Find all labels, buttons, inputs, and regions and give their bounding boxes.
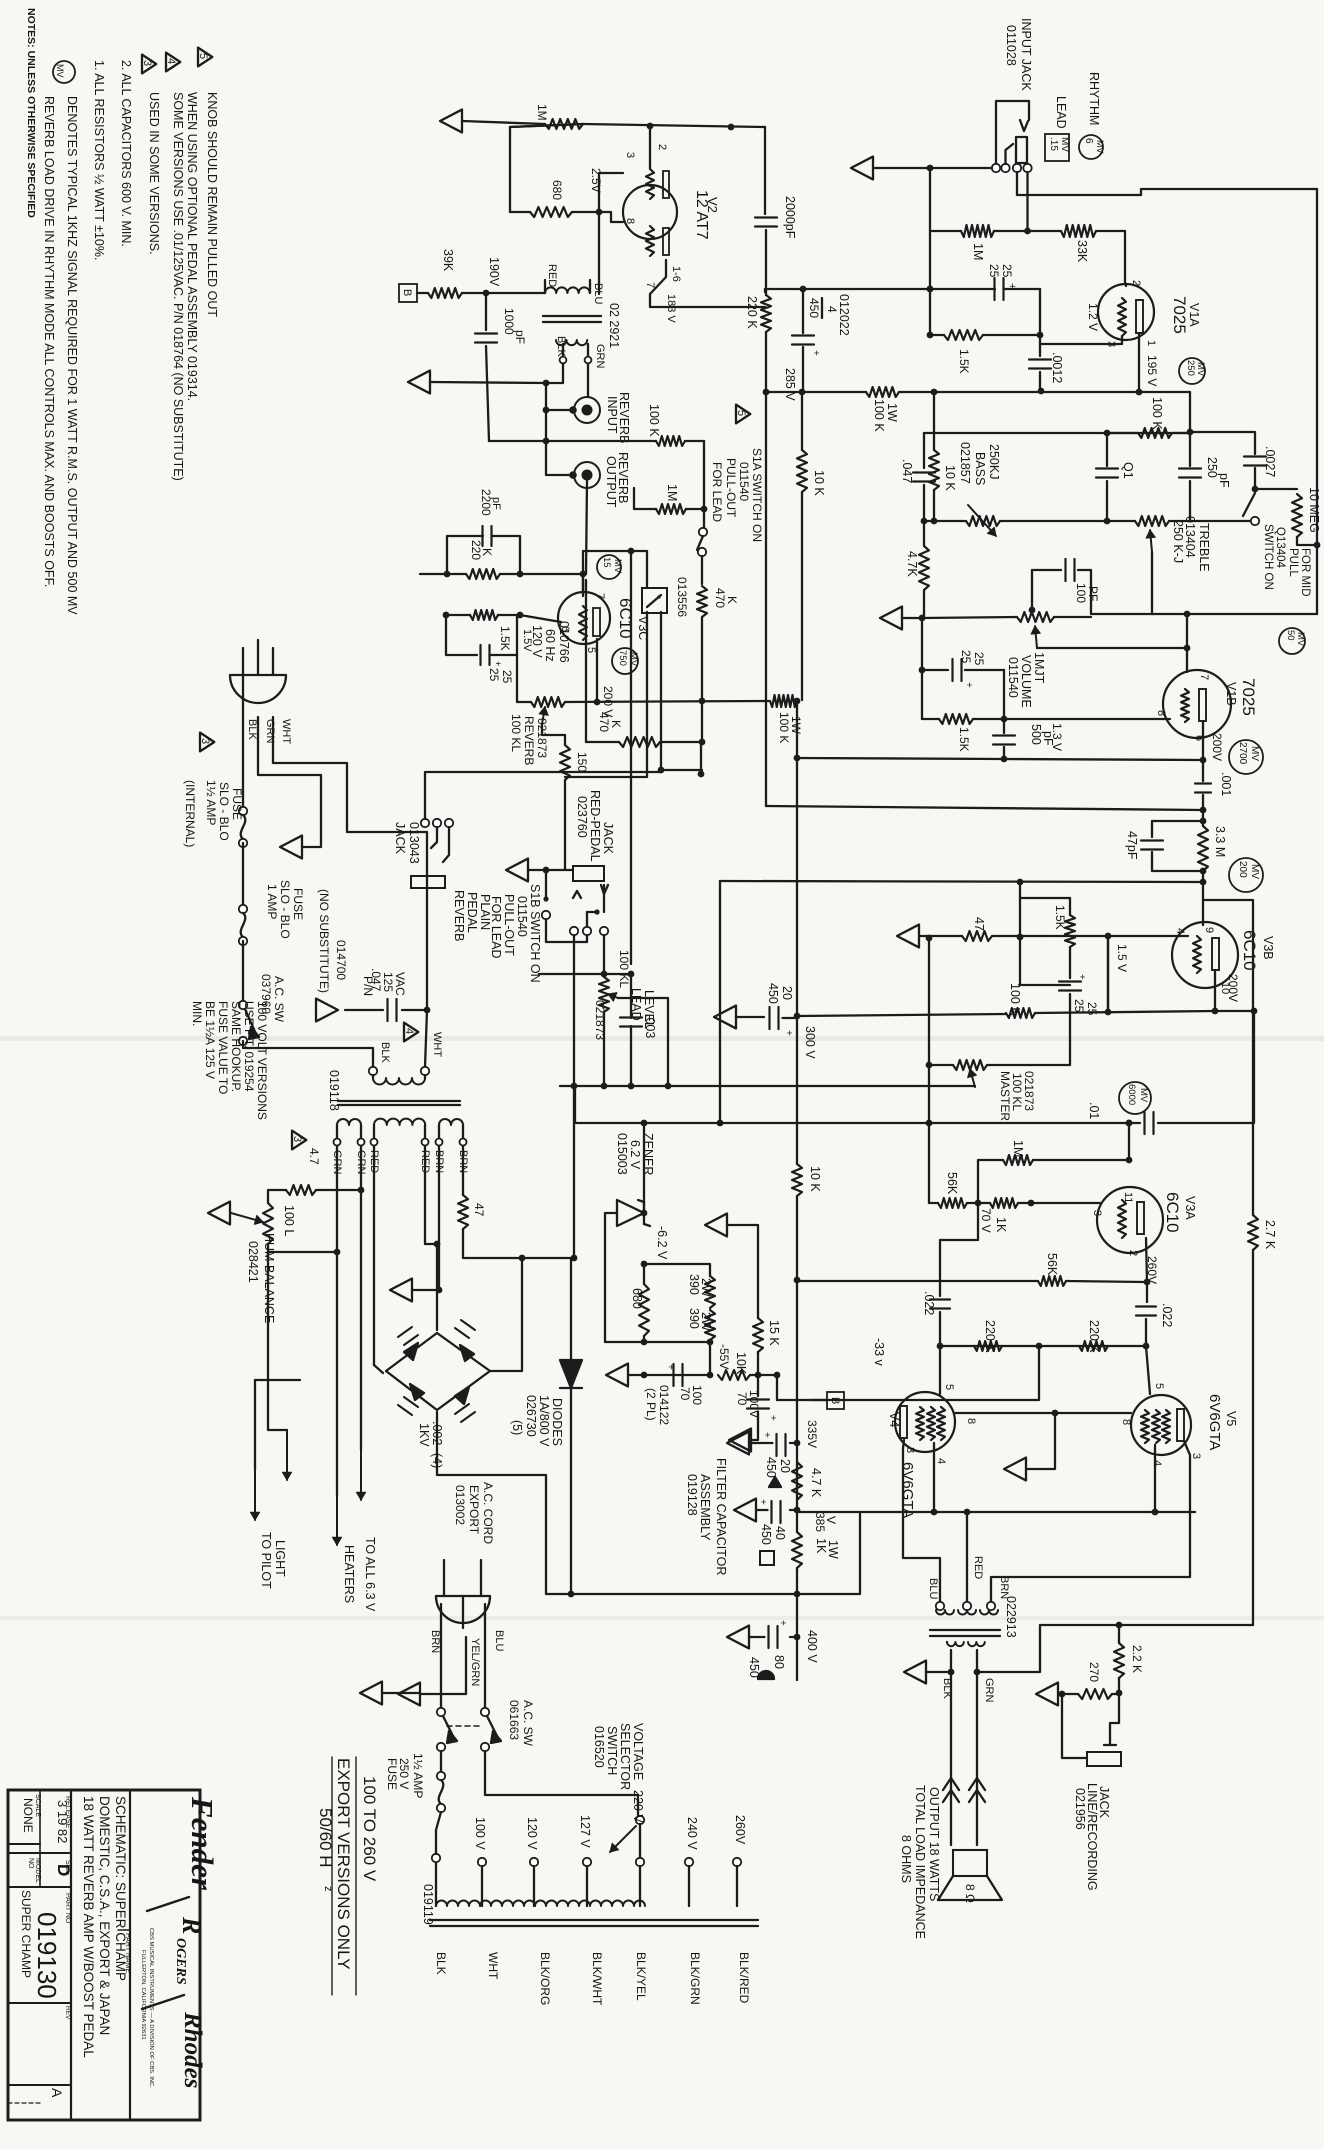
ecap 20/450 node a xyxy=(768,1007,770,1029)
ground 70/100V xyxy=(729,1429,751,1452)
svg-text:014122: 014122 xyxy=(657,1385,671,1425)
svg-text:100 K: 100 K xyxy=(1008,983,1022,1016)
wire BRN1 grounded xyxy=(438,1146,440,1290)
svg-text:V4: V4 xyxy=(887,1412,901,1427)
svg-text:4.7 K: 4.7 K xyxy=(809,1468,823,1498)
resistor 2.7K feedback xyxy=(1252,1250,1254,1625)
ground at input xyxy=(851,157,873,180)
resistor 33K xyxy=(1028,230,1062,232)
wire reverb pot left xyxy=(517,655,531,702)
mv box .15MV xyxy=(1045,134,1069,161)
svg-text:GRN: GRN xyxy=(264,719,276,744)
svg-text:TREBLE: TREBLE xyxy=(1197,523,1211,572)
svg-text:200V: 200V xyxy=(1226,974,1240,1002)
svg-text:CBS MUSICAL INSTRUMENTS — A DI: CBS MUSICAL INSTRUMENTS — A DIVISION OF … xyxy=(148,1928,154,2088)
svg-text:50/60 H: 50/60 H xyxy=(316,1808,335,1868)
svg-text:2. ALL CAPACITORS 600 V. MIN.: 2. ALL CAPACITORS 600 V. MIN. xyxy=(119,60,133,247)
svg-text:+: + xyxy=(777,1620,788,1626)
resistor 150 xyxy=(560,745,570,780)
wire 1.5K top to bus xyxy=(1020,898,1070,937)
wire V1B plate xyxy=(1202,721,1204,760)
svg-text:PF: PF xyxy=(1086,586,1100,601)
svg-text:1.5K: 1.5K xyxy=(957,727,971,752)
ecap 25/25 V3B xyxy=(1069,958,1071,978)
wire 470K junction down xyxy=(700,742,702,774)
svg-text:9: 9 xyxy=(1203,927,1215,933)
selector wiper xyxy=(636,1816,644,1824)
svg-text:1M: 1M xyxy=(1011,1140,1025,1157)
svg-text:1M: 1M xyxy=(665,484,679,501)
svg-text:5: 5 xyxy=(943,1384,955,1390)
svg-text:47pF: 47pF xyxy=(1125,831,1139,860)
resistor 47 bias winding xyxy=(462,1146,464,1195)
svg-text:2W: 2W xyxy=(699,1278,713,1297)
resistor 4.7 heater xyxy=(358,1187,365,1194)
note 5 triangle xyxy=(198,48,212,67)
note MV symbol xyxy=(53,61,75,83)
svg-text:MV: MV xyxy=(1249,746,1260,761)
svg-text:500: 500 xyxy=(1029,724,1043,745)
svg-text:220 K: 220 K xyxy=(983,1320,997,1353)
svg-text:.002: .002 xyxy=(430,1421,444,1445)
svg-text:1K: 1K xyxy=(814,1538,828,1554)
svg-text:250KJ: 250KJ xyxy=(987,444,1001,479)
svg-text:750: 750 xyxy=(617,650,628,666)
B box node xyxy=(399,284,417,302)
wire BRN2 to bias diode xyxy=(463,1229,571,1258)
svg-text:FOR LEAD: FOR LEAD xyxy=(489,896,503,959)
svg-text:JACK: JACK xyxy=(601,822,615,855)
wire bias to 220K mid xyxy=(777,1346,1039,1400)
wire 1000pF down to 100K row xyxy=(486,346,489,441)
svg-text:2000pF: 2000pF xyxy=(783,196,797,239)
svg-text:FOR MID: FOR MID xyxy=(1299,548,1311,597)
svg-text:56K: 56K xyxy=(1045,1253,1059,1276)
svg-text:20: 20 xyxy=(780,986,794,1000)
svg-text:LEAD: LEAD xyxy=(1054,96,1068,129)
svg-text:285 V: 285 V xyxy=(783,368,797,401)
svg-text:2.7 K: 2.7 K xyxy=(1263,1220,1277,1250)
svg-text:20: 20 xyxy=(778,1459,792,1473)
svg-text:100 KL: 100 KL xyxy=(509,714,523,752)
svg-text:GRN: GRN xyxy=(983,1678,995,1703)
svg-text:V3A: V3A xyxy=(1183,1196,1197,1220)
svg-text:(2 PL): (2 PL) xyxy=(644,1388,658,1421)
svg-text:183 V: 183 V xyxy=(665,294,677,323)
resistor 1.5K V1A cathode xyxy=(930,334,944,336)
capacitor 100pF volume bright xyxy=(1032,570,1061,610)
svg-text:1KV: 1KV xyxy=(417,1423,431,1447)
svg-text:1 AMP: 1 AMP xyxy=(265,884,279,919)
svg-text:RED: RED xyxy=(972,1556,984,1579)
svg-text:25: 25 xyxy=(500,670,514,684)
ecap 70/100V xyxy=(757,1375,759,1396)
svg-text:5: 5 xyxy=(197,53,209,59)
ground .047 xyxy=(316,999,338,1022)
wire AC cord export xyxy=(420,1637,466,1694)
svg-text:15 K: 15 K xyxy=(767,1320,781,1346)
svg-text:FUSE VALUE TO: FUSE VALUE TO xyxy=(216,1001,230,1094)
svg-text:pF: pF xyxy=(490,497,502,510)
svg-text:300 V: 300 V xyxy=(803,1026,817,1059)
svg-text:BLK/WHT: BLK/WHT xyxy=(590,1952,604,2006)
750MV badge xyxy=(612,648,638,674)
wire V1A cathode xyxy=(1040,336,1122,344)
capacitor .022 V3A in xyxy=(940,1203,978,1296)
capacitor 47pF bypass xyxy=(1152,821,1203,837)
svg-text:1: 1 xyxy=(1145,340,1157,346)
svg-text:SWITCH ON: SWITCH ON xyxy=(1262,524,1274,590)
svg-text:3: 3 xyxy=(291,1136,303,1142)
svg-text:NO: NO xyxy=(27,1858,34,1869)
svg-text:PULL: PULL xyxy=(1287,548,1299,577)
wire 10MEG bottom xyxy=(1297,537,1317,545)
svg-text:FUSE: FUSE xyxy=(230,788,244,820)
svg-text:DIODES: DIODES xyxy=(550,1398,564,1446)
svg-text:TOTAL LOAD IMPEDANCE: TOTAL LOAD IMPEDANCE xyxy=(913,1785,927,1939)
022913 secondary xyxy=(947,1642,964,1646)
svg-text:18 WATT REVERB AMP W/BOOST PED: 18 WATT REVERB AMP W/BOOST PEDAL xyxy=(81,1796,96,2058)
ground reverb xyxy=(408,371,430,394)
svg-text:P/N: P/N xyxy=(361,976,375,996)
svg-text:1.3 V: 1.3 V xyxy=(1050,723,1064,751)
svg-text:680: 680 xyxy=(550,180,564,200)
wire 33K to V1A grid xyxy=(1125,231,1126,286)
wire line jack xyxy=(1062,1694,1087,1758)
svg-text:RHYTHM: RHYTHM xyxy=(1087,72,1101,125)
wire 400V to OT xyxy=(797,1514,860,1594)
svg-text:2: 2 xyxy=(656,144,668,150)
svg-text:10 K: 10 K xyxy=(812,470,826,496)
B box bias xyxy=(827,1392,844,1409)
svg-text:100 K: 100 K xyxy=(872,399,886,432)
wire OT RED to bus xyxy=(966,1512,968,1602)
svg-text:190V: 190V xyxy=(487,257,501,287)
svg-text:BLK: BLK xyxy=(555,336,567,357)
svg-text:8 Ω: 8 Ω xyxy=(963,1884,977,1903)
svg-text:-55V: -55V xyxy=(717,1344,731,1369)
svg-text:023760: 023760 xyxy=(575,796,589,838)
svg-text:z: z xyxy=(322,1886,334,1892)
wire V5 plate to OT BRN xyxy=(991,1441,1190,1602)
V3C plate wire xyxy=(596,639,598,702)
svg-text:240 V: 240 V xyxy=(685,1817,699,1850)
svg-text:.047: .047 xyxy=(900,459,914,483)
svg-text:3: 3 xyxy=(1091,1210,1103,1216)
svg-text:061663: 061663 xyxy=(507,1700,521,1740)
svg-text:4: 4 xyxy=(165,58,177,64)
wire V3B plate xyxy=(1214,970,1216,1011)
svg-text:100 KL: 100 KL xyxy=(617,950,631,988)
svg-text:Q13404: Q13404 xyxy=(1274,527,1286,569)
resistor 100K V3B plate load xyxy=(797,1014,1006,1016)
svg-text:25: 25 xyxy=(1072,999,1086,1013)
svg-text:125: 125 xyxy=(381,972,395,992)
svg-text:127 V: 127 V xyxy=(578,1815,592,1848)
svg-text:013002: 013002 xyxy=(453,1485,467,1525)
svg-text:SELECTOR: SELECTOR xyxy=(618,1723,632,1790)
svg-text:3: 3 xyxy=(624,152,636,158)
mid switch Q13404 xyxy=(1251,517,1259,525)
svg-text:PART NO: PART NO xyxy=(64,1893,71,1924)
svg-text:50: 50 xyxy=(1285,630,1296,641)
svg-text:100 K: 100 K xyxy=(1150,397,1164,430)
svg-text:GRN: GRN xyxy=(594,344,606,369)
resistor 220K right xyxy=(1079,1341,1108,1351)
svg-text:80: 80 xyxy=(772,1655,786,1669)
svg-text:100 KL: 100 KL xyxy=(1010,1073,1024,1111)
svg-text:028421: 028421 xyxy=(246,1241,260,1283)
svg-text:100: 100 xyxy=(1074,583,1088,603)
svg-text:VOLUME: VOLUME xyxy=(1019,655,1033,708)
resistor 1M reverb xyxy=(656,504,686,514)
wire master feed xyxy=(1158,1011,1254,1123)
300V rail down xyxy=(796,1278,798,1512)
jack line/recording 021956 xyxy=(1087,1752,1121,1766)
resistor 56K V3A grid xyxy=(978,1160,1003,1203)
svg-text:BLK/YEL: BLK/YEL xyxy=(634,1952,648,2001)
svg-text:8: 8 xyxy=(1120,1419,1132,1425)
2700MV badge xyxy=(1229,740,1263,774)
capacitor .0012 xyxy=(1039,335,1041,356)
svg-text:ASSEMBLY: ASSEMBLY xyxy=(698,1474,712,1541)
svg-text:A: A xyxy=(49,2088,65,2098)
wire reverb secondary to jacks xyxy=(562,344,564,356)
resistor 10K plate feed xyxy=(931,389,938,396)
svg-text:BRN: BRN xyxy=(429,1630,441,1653)
resistor 39K xyxy=(417,292,428,294)
svg-text:R: R xyxy=(177,1916,206,1934)
V3C cathode network xyxy=(520,615,561,622)
svg-text:4: 4 xyxy=(1151,1460,1163,1466)
svg-text:021956: 021956 xyxy=(1073,1788,1087,1830)
resistor 10K bias xyxy=(718,1370,750,1380)
resistor 470K vertical xyxy=(697,586,707,617)
svg-text:K: K xyxy=(609,720,623,728)
svg-text:3: 3 xyxy=(141,60,153,66)
019119 taps xyxy=(478,1858,486,1866)
wire V2 plate to 183V xyxy=(650,260,666,298)
svg-text:7025: 7025 xyxy=(1239,678,1258,716)
logo slashes xyxy=(147,1897,189,1911)
svg-text:7: 7 xyxy=(1198,674,1210,680)
svg-text:BLK: BLK xyxy=(379,1042,391,1063)
svg-text:25: 25 xyxy=(959,650,973,664)
title block outer box xyxy=(8,1790,200,2120)
svg-text:SAME HOOKUP.: SAME HOOKUP. xyxy=(229,1001,243,1092)
svg-text:021857: 021857 xyxy=(958,442,972,484)
resistors 390 2W xyxy=(644,1264,710,1276)
resistor 220K boost xyxy=(761,295,771,332)
svg-text:40: 40 xyxy=(773,1526,787,1540)
resistor 100K reverb return xyxy=(489,440,546,442)
svg-text:400 V: 400 V xyxy=(805,1630,819,1663)
svg-text:BE 1½A 125 V: BE 1½A 125 V xyxy=(203,1001,217,1079)
svg-text:195 V: 195 V xyxy=(1145,355,1159,386)
svg-text:BLK/GRN: BLK/GRN xyxy=(688,1952,702,2005)
svg-text:+: + xyxy=(810,350,821,356)
svg-text:100 L: 100 L xyxy=(282,1205,296,1236)
svg-text:220 V: 220 V xyxy=(631,1790,645,1823)
svg-text:470: 470 xyxy=(713,588,727,608)
capacitor .022 coupling right xyxy=(1146,1282,1148,1302)
wire jack contact to rhythm bus xyxy=(1017,172,1317,614)
ground 6V6 cathode xyxy=(1004,1458,1026,1481)
wire master right to ecap xyxy=(987,994,1070,1065)
svg-text:+: + xyxy=(493,661,503,666)
ecap 25/25 boost xyxy=(993,278,995,300)
svg-text:USE P.T. 019254: USE P.T. 019254 xyxy=(242,1001,256,1092)
svg-text:010766: 010766 xyxy=(557,621,571,663)
svg-text:DOMESTIC, C.S.A., EXPORT & JAP: DOMESTIC, C.S.A., EXPORT & JAPAN xyxy=(97,1796,112,2035)
svg-text:1.5K: 1.5K xyxy=(498,626,512,651)
resistor 4.7K bass xyxy=(923,521,925,546)
svg-text:MODEL: MODEL xyxy=(34,1858,41,1883)
svg-text:EXPORT: EXPORT xyxy=(467,1485,481,1535)
wire to bias diode xyxy=(573,1086,575,1258)
svg-text:5: 5 xyxy=(1153,1383,1165,1389)
svg-text:BASS: BASS xyxy=(973,452,987,485)
svg-text:1½ AMP: 1½ AMP xyxy=(411,1753,425,1798)
ecap 40/450 filter2 xyxy=(790,1509,797,1511)
note3 triangle at fuse xyxy=(200,733,214,752)
svg-text:SLO - BLO: SLO - BLO xyxy=(217,782,231,841)
svg-text:MV: MV xyxy=(1195,362,1206,377)
resistor 10MEG xyxy=(1255,488,1297,490)
svg-text:BLK: BLK xyxy=(246,719,258,740)
svg-text:NOTES: UNLESS OTHERWISE SPECIF: NOTES: UNLESS OTHERWISE SPECIFIED xyxy=(25,8,37,218)
resistor 1K 1W xyxy=(792,1532,802,1568)
svg-text:470: 470 xyxy=(597,712,611,732)
svg-text:1M: 1M xyxy=(971,243,985,260)
svg-text:47: 47 xyxy=(972,917,986,931)
svg-text:2.5V: 2.5V xyxy=(589,168,603,193)
svg-text:.003: .003 xyxy=(643,1014,657,1038)
wire GRN to chassis xyxy=(258,717,321,847)
svg-text:A.C. SW: A.C. SW xyxy=(521,1700,535,1747)
svg-text:6000: 6000 xyxy=(1126,1084,1137,1105)
ground 20/450 node a xyxy=(714,1006,736,1029)
wire V2 bottom loop xyxy=(650,298,765,307)
svg-text:WHT: WHT xyxy=(431,1032,443,1057)
svg-text:4.7K: 4.7K xyxy=(905,551,919,577)
tube V2 12AT7 xyxy=(623,185,677,239)
svg-text:PULL-OUT: PULL-OUT xyxy=(724,458,738,518)
svg-text:1½ AMP: 1½ AMP xyxy=(204,780,218,825)
resistor 1M V2 grid xyxy=(440,110,462,133)
ecap 20/450 filter1 xyxy=(790,1442,797,1444)
wire fuse2 to switch xyxy=(242,941,244,1000)
svg-text:(NO SUBSTITUTE): (NO SUBSTITUTE) xyxy=(317,889,331,993)
svg-text:REVERB: REVERB xyxy=(522,716,536,765)
svg-text:6V6GTA: 6V6GTA xyxy=(1206,1394,1223,1450)
ground bias xyxy=(606,1364,628,1387)
svg-text:1.5K: 1.5K xyxy=(957,349,971,374)
svg-text:MV: MV xyxy=(612,559,623,574)
svg-text:1W: 1W xyxy=(885,403,899,422)
svg-text:+: + xyxy=(767,1415,778,1421)
svg-text:011540: 011540 xyxy=(737,462,751,501)
svg-text:1.5 V: 1.5 V xyxy=(1115,944,1129,972)
svg-text:SCHEMATIC: SUPER CHAMP: SCHEMATIC: SUPER CHAMP xyxy=(113,1796,128,1981)
wire V4 plate to OT BLU xyxy=(903,1440,940,1602)
wire input ground to jack xyxy=(873,167,992,169)
pot 1MJT volume xyxy=(922,617,1017,618)
svg-text:70: 70 xyxy=(735,1392,749,1406)
note 4 triangle xyxy=(166,53,180,72)
svg-text:250 K-J: 250 K-J xyxy=(1171,520,1185,563)
wire reverb pot wiper xyxy=(542,724,565,745)
svg-text:70 V: 70 V xyxy=(979,1208,993,1233)
resistor 10K dropper xyxy=(801,392,803,450)
resistor 3.3M xyxy=(1200,818,1207,825)
6000MV badge xyxy=(1119,1082,1151,1114)
svg-text:6.2 V: 6.2 V xyxy=(628,1140,642,1170)
285V rail down xyxy=(765,392,767,806)
019119 winding xyxy=(436,1901,645,1906)
svg-text:390: 390 xyxy=(687,1308,701,1329)
wire top bus to 2000pF xyxy=(583,124,765,127)
svg-text:1K: 1K xyxy=(994,1217,1008,1233)
resistor 10K screen node xyxy=(796,701,798,1164)
svg-text:680: 680 xyxy=(630,1288,644,1309)
wire reverb output tip down xyxy=(586,481,587,574)
bus 385V screens xyxy=(798,1511,1195,1513)
wire bridge to 400V node xyxy=(437,1412,797,1594)
svg-text:DENOTES TYPICAL 1KHZ SIGNAL R: DENOTES TYPICAL 1KHZ SIGNAL REQUIRED FOR… xyxy=(65,96,79,615)
tube V3A 6C10 xyxy=(1097,1187,1163,1253)
pot 100KL master xyxy=(953,1060,987,1070)
ground filter3 xyxy=(727,1626,749,1649)
svg-text:pF: pF xyxy=(513,330,527,344)
wire jack contacts down xyxy=(573,935,575,974)
svg-text:2: 2 xyxy=(1130,280,1142,286)
resistor 100K mid xyxy=(1107,432,1138,434)
svg-text:4.7: 4.7 xyxy=(307,1148,321,1165)
output transformer 022913 xyxy=(936,1602,944,1610)
wire plate to tone top rail xyxy=(1139,391,1190,393)
svg-text:011028: 011028 xyxy=(1004,25,1018,66)
svg-text:+: + xyxy=(1076,974,1087,980)
tube V1A 7025 xyxy=(1098,284,1154,340)
svg-text:8: 8 xyxy=(1155,710,1167,716)
svg-text:.15: .15 xyxy=(1048,137,1059,151)
svg-text:+: + xyxy=(757,1499,768,1505)
svg-text:K: K xyxy=(725,596,739,604)
svg-text:A.C. CORD: A.C. CORD xyxy=(481,1482,495,1544)
svg-text:450: 450 xyxy=(759,1524,773,1545)
wire V3B grid return xyxy=(1108,935,1188,937)
capacitor 2000pF xyxy=(764,127,766,214)
svg-text:120 V: 120 V xyxy=(530,625,544,658)
svg-text:.022: .022 xyxy=(1160,1303,1174,1327)
wire grid bus 6V6 xyxy=(940,1345,1146,1347)
wires 013556 xyxy=(583,551,647,588)
wire V3C grid xyxy=(582,574,584,592)
svg-text:011540: 011540 xyxy=(1006,657,1020,698)
svg-text:FILTER CAPACITOR: FILTER CAPACITOR xyxy=(714,1458,728,1575)
svg-text:56K: 56K xyxy=(945,1172,959,1195)
note4 triangle at .047 xyxy=(404,1023,418,1042)
svg-text:1.5K: 1.5K xyxy=(1053,905,1067,930)
capacitor .003 lead xyxy=(539,973,631,975)
ground S1B xyxy=(506,859,528,882)
ecap 70/100 bias xyxy=(672,1364,674,1386)
pot 250KJ bass xyxy=(921,518,928,525)
svg-text:BLK: BLK xyxy=(434,1952,448,1975)
wire switch to transformer BLK xyxy=(243,1041,373,1067)
svg-text:.001: .001 xyxy=(1219,772,1233,796)
